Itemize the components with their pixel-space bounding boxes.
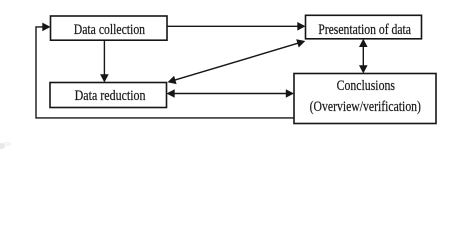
box: Conclusions (Overview/verification) bbox=[294, 74, 436, 124]
wire: Data collection to Presentation of data (horizontal arrow) bbox=[167, 22, 306, 31]
svg-text:(Overview/verification): (Overview/verification) bbox=[310, 99, 421, 115]
svg-text:Data collection: Data collection bbox=[74, 22, 146, 38]
wire: vertical double arrow between Presentation of data and Conclusions bbox=[359, 39, 368, 74]
wire: horizontal double arrow between Data reduction and Conclusions bbox=[167, 89, 295, 98]
box: Data collection bbox=[51, 16, 168, 40]
smudge artifact bottom-left corner bbox=[0, 142, 11, 149]
wire: feedback loop from Conclusions left side to Data collection left side bbox=[36, 23, 294, 118]
box: Presentation of data bbox=[306, 15, 422, 39]
svg-text:Presentation of data: Presentation of data bbox=[318, 22, 411, 38]
svg-text:Data reduction: Data reduction bbox=[75, 88, 146, 104]
wire: diagonal double arrow between Data reduction (top-right) and Presentation of data (bottom-left) bbox=[168, 39, 306, 84]
svg-text:Conclusions: Conclusions bbox=[337, 78, 396, 94]
wire: Data collection down to Data reduction (vertical arrow) bbox=[100, 40, 109, 82]
box: Data reduction bbox=[50, 83, 167, 108]
